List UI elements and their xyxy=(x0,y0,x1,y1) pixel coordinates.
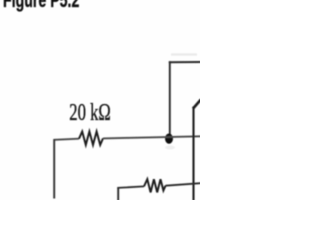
wire top feedback vertical xyxy=(169,61,171,135)
wire bottom left vertical stub xyxy=(117,188,119,201)
resistor R2 feedback zigzag xyxy=(144,179,166,192)
wire bottom horizontal right segment to right edge xyxy=(166,183,201,186)
wire main horizontal left segment xyxy=(54,139,79,140)
faint artifact above top wire xyxy=(171,53,197,55)
faint artifact below node xyxy=(165,146,175,150)
wire op-amp output vertical (right) xyxy=(192,107,194,201)
wire bottom horizontal left segment xyxy=(117,186,144,188)
node junction dot xyxy=(165,134,173,144)
wire main horizontal right segment through node to right edge xyxy=(103,136,201,138)
svg-text:20 kΩ: 20 kΩ xyxy=(69,98,111,126)
resistor R1 20 kΩ zigzag xyxy=(79,132,103,145)
op-amp triangle edge stub (cut off at right) xyxy=(193,99,201,108)
wire top feedback horizontal xyxy=(169,61,201,63)
wire input left vertical xyxy=(53,139,55,199)
svg-text:Figure P5.2: Figure P5.2 xyxy=(3,0,79,12)
